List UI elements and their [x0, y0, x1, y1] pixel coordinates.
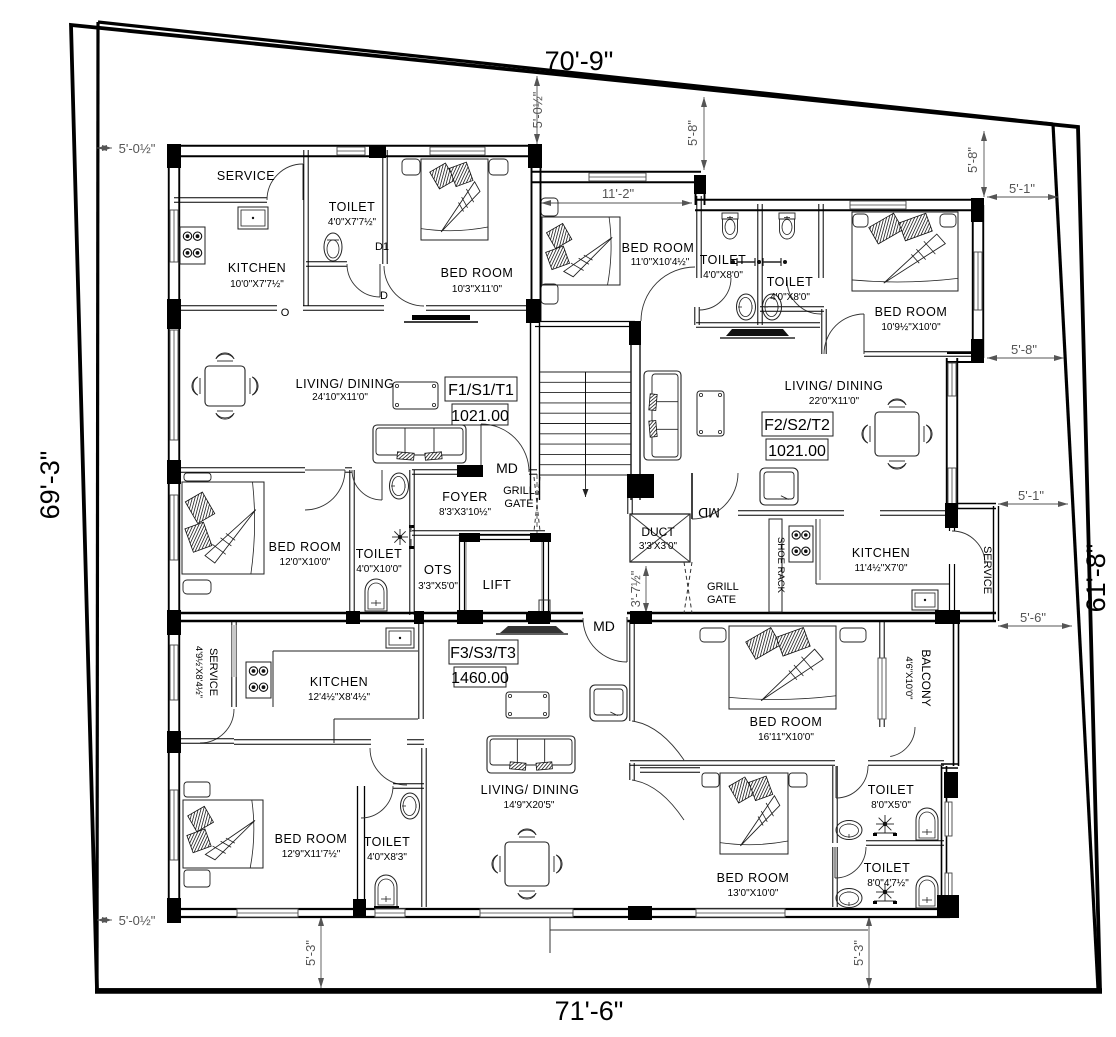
wall: F3 kitchen south [234, 740, 424, 744]
svg-text:11'0"X10'4½": 11'0"X10'4½" [631, 257, 690, 268]
window: left kitchen [170, 210, 179, 263]
door arc: F1 toilet2 [352, 470, 382, 500]
sink F2 [912, 590, 938, 610]
label F3 living [481, 783, 580, 811]
staircase enclosure [531, 321, 641, 500]
dining table F3 [492, 829, 562, 899]
label F2 toilet1 [700, 253, 747, 281]
wall: flat2 north exterior [695, 177, 982, 210]
sink F1 [238, 207, 268, 229]
svg-text:5'-1": 5'-1" [1018, 488, 1044, 503]
svg-text:OTS: OTS [424, 562, 452, 577]
wall: F1 toilet2 east / OTS west [410, 470, 414, 615]
wall: F1 kitchen-toilet vertical [304, 150, 308, 306]
svg-text:KITCHEN: KITCHEN [310, 675, 368, 689]
wall: F2 toilet2 east [819, 204, 823, 278]
label F3 kitchen [308, 675, 371, 703]
dining table F2 [862, 399, 932, 469]
door arc: F1 toilet D1 [347, 264, 380, 297]
wall: F1 toilet east [383, 150, 387, 264]
wall: F1 service-kitchen divider [174, 198, 267, 202]
svg-text:F1/S1/T1: F1/S1/T1 [448, 382, 514, 399]
svg-text:SERVICE: SERVICE [981, 546, 993, 594]
label F1 bedroom1 [441, 266, 514, 295]
window: F2 east bedroom [974, 252, 983, 311]
wall: flat3 balcony east [954, 621, 959, 766]
wall: building bottom exterior [168, 909, 950, 917]
dim 5-8 top right at x984 [965, 131, 987, 197]
svg-text:1460.00: 1460.00 [451, 670, 509, 687]
wc F1 toilet1 [324, 233, 342, 261]
svg-text:71'-6": 71'-6" [555, 996, 624, 1026]
wall: flat2 east step [947, 353, 984, 362]
svg-text:DUCT: DUCT [641, 525, 675, 539]
dim 5-1 right upper [987, 181, 1058, 200]
wc F2 toilet2 [779, 213, 795, 239]
wall: living-bedroom13 stub [630, 763, 634, 780]
svg-text:5'-6": 5'-6" [1020, 610, 1046, 625]
wall: F1 foyer north [412, 470, 537, 474]
svg-text:BED ROOM: BED ROOM [750, 715, 823, 729]
door arc: F2 bedroom [824, 314, 864, 354]
svg-text:BED ROOM: BED ROOM [717, 871, 790, 885]
door arc: F3 toilet bottom [835, 847, 866, 878]
label MD F1 [496, 460, 518, 476]
svg-text:3'3'X3'0": 3'3'X3'0" [639, 541, 678, 552]
duct shaft [630, 514, 690, 562]
svg-text:MD: MD [496, 460, 518, 476]
label MD F3 [593, 618, 615, 634]
window: left living [170, 330, 179, 441]
svg-text:TOILET: TOILET [329, 200, 376, 214]
wall: F2 toilets middle [758, 204, 762, 325]
door arc: F3 toilet top [836, 766, 868, 798]
label F1 service [217, 169, 275, 183]
svg-text:BALCONY: BALCONY [919, 649, 933, 706]
bed F1 bedroom1 [402, 159, 508, 240]
window: F2 east living w1 [948, 363, 957, 397]
door arc: F2 MD [692, 473, 738, 519]
dim 5-3 bottom right [851, 916, 872, 988]
label F2 bedroom [875, 305, 948, 333]
svg-text:16'11"X10'0": 16'11"X10'0" [758, 732, 814, 743]
wall: F2 toilet1 west [697, 196, 701, 278]
label F1 foyer [439, 490, 492, 518]
svg-text:TOILET: TOILET [364, 835, 411, 849]
door arc: balcony [890, 727, 915, 757]
label bedroom 11x10 [622, 241, 695, 268]
wall: F1 kitchen-living divider [174, 306, 539, 310]
svg-text:12'4½"X8'4½": 12'4½"X8'4½" [308, 692, 371, 703]
svg-text:5'-0½": 5'-0½" [119, 141, 156, 156]
label F2 toilet2 [767, 275, 814, 303]
wall: F2 kitchen north [738, 511, 950, 515]
svg-text:FOYER: FOYER [442, 490, 488, 504]
window: balcony east wall [878, 658, 887, 720]
dimension 61-8 right [1081, 544, 1111, 613]
wall: F1 foyer south / OTS north [412, 531, 545, 535]
wall: F2 foyer west + leaf [691, 473, 693, 519]
svg-text:4'0"X8'3": 4'0"X8'3" [367, 852, 407, 863]
sill: F3 entry [496, 626, 568, 634]
site boundary inner line top [98, 22, 1053, 124]
door arc: F2 service [950, 508, 986, 612]
fixtures F3 toilet top [836, 808, 938, 840]
wall: F3 service south [174, 739, 234, 743]
dim 5-6 right bottom [998, 610, 1072, 629]
door arc: F3 toilet3 [361, 786, 393, 818]
wall: flat2 service east [994, 506, 999, 621]
wall: flat2 service north [958, 504, 996, 509]
site boundary inner line left [97, 22, 98, 990]
window: left bedroom F3 [170, 790, 179, 861]
wall: toilets divider [866, 841, 944, 845]
site boundary inner line right [1053, 124, 1098, 989]
wall: flat1 north exterior [168, 146, 541, 157]
svg-text:5'-1": 5'-1" [1009, 181, 1035, 196]
unit box F3 [449, 640, 518, 687]
shower F1 toilet2 [392, 525, 414, 549]
label F3 bedroom16 [750, 715, 823, 743]
window: left service F3 [170, 645, 179, 701]
kitchen counter F2 [816, 519, 950, 584]
svg-text:5'-8": 5'-8" [965, 147, 980, 173]
window: bottom toilet3 [375, 909, 406, 918]
staircase treads [540, 372, 631, 497]
svg-text:3'-7½": 3'-7½" [628, 570, 643, 607]
wall: bedroom13 north lower [640, 768, 700, 772]
window: toilets east w2 [945, 873, 953, 907]
wall: F2 bedroom south [864, 352, 981, 356]
label D [380, 290, 388, 302]
porch outline bottom [550, 911, 868, 953]
window: F1 north w2 [430, 147, 486, 156]
door arc: F1 service [267, 164, 303, 200]
svg-text:10'3"X11'0": 10'3"X11'0" [452, 284, 503, 295]
sink F3 [386, 628, 414, 648]
label O [281, 307, 290, 319]
label F1 kitchen [228, 261, 286, 290]
basin F3 toilet [401, 793, 420, 819]
wall: bedroom13 east / toilets west [833, 766, 837, 907]
svg-text:TOILET: TOILET [356, 547, 403, 561]
dimension 69-3 left [35, 451, 65, 520]
svg-text:10'9½"X10'0": 10'9½"X10'0" [881, 322, 941, 333]
svg-text:F2/S2/T2: F2/S2/T2 [764, 417, 830, 434]
svg-text:SERVICE: SERVICE [217, 169, 275, 183]
dim 11-2 [541, 186, 692, 206]
svg-text:8'0"X5'0": 8'0"X5'0" [871, 800, 911, 811]
column blocks [167, 144, 984, 923]
svg-text:61'-8": 61'-8" [1081, 544, 1111, 613]
dimension 71-6 bottom [555, 996, 624, 1026]
label F3 toilet top [868, 783, 915, 811]
svg-text:14'9"X20'5": 14'9"X20'5" [504, 800, 555, 811]
basin F1 toilet2 [390, 473, 409, 499]
basin F2 toilet1 [737, 294, 756, 320]
window: top middle bedroom [589, 173, 647, 182]
label F3 toilet bottom [864, 861, 911, 889]
unit box F1 [445, 377, 517, 425]
wall: flat2 east living [947, 358, 958, 508]
svg-text:LIVING/ DINING: LIVING/ DINING [785, 379, 884, 393]
svg-text:LIVING/ DINING: LIVING/ DINING [481, 783, 580, 797]
label grill gate F2 [707, 581, 739, 606]
armchair F3 [590, 685, 627, 721]
door arc: F1 bedroom2 [305, 470, 345, 510]
door arc: F2 toilet1 [699, 278, 731, 310]
label F2 kitchen [852, 546, 910, 574]
svg-text:BED ROOM: BED ROOM [269, 540, 342, 554]
svg-text:4'9½'X8'4½": 4'9½'X8'4½" [193, 646, 204, 698]
lift [459, 533, 551, 621]
sofa F3 [487, 736, 575, 773]
window: bottom living F3 [480, 909, 574, 918]
dim 5-8 top at x704 [685, 97, 707, 170]
svg-text:12'9"X11'7½": 12'9"X11'7½" [282, 849, 341, 860]
svg-text:KITCHEN: KITCHEN [228, 261, 286, 275]
svg-text:TOILET: TOILET [868, 783, 915, 797]
unit box F2 [762, 412, 833, 460]
window: toilets east w1 [945, 802, 953, 837]
svg-text:LIFT: LIFT [483, 577, 512, 592]
svg-text:BED ROOM: BED ROOM [275, 832, 348, 846]
svg-text:O: O [281, 307, 290, 319]
wall: F1 living-bedroom divider [174, 468, 352, 472]
svg-text:D: D [380, 290, 388, 302]
svg-text:4'0"X8'0": 4'0"X8'0" [703, 270, 743, 281]
sill: F1 bedroom step [404, 315, 478, 322]
wc F3 toilet [374, 875, 399, 909]
grill gate F2 dashed [684, 562, 692, 613]
svg-text:5'-0½": 5'-0½" [530, 91, 545, 128]
label F1 toilet [328, 200, 377, 228]
wall: F3 kitchen east [419, 621, 423, 719]
bed F1 bedroom2 [182, 473, 264, 594]
svg-text:F3/S3/T3: F3/S3/T3 [450, 645, 516, 662]
svg-text:8'0"4'7½": 8'0"4'7½" [867, 878, 909, 889]
window: bottom bedroom13 [696, 909, 786, 918]
window: F2 east living w2 [948, 468, 957, 505]
svg-text:5'-8": 5'-8" [1011, 342, 1037, 357]
svg-text:BED ROOM: BED ROOM [875, 305, 948, 319]
wall: balcony west [880, 621, 884, 727]
svg-text:5'-0½": 5'-0½" [119, 913, 156, 928]
door arc: F3 bedroom door [370, 748, 407, 785]
svg-text:MD: MD [593, 618, 615, 634]
svg-text:TOILET: TOILET [767, 275, 814, 289]
svg-text:13'0"X10'0": 13'0"X10'0" [728, 888, 779, 899]
dim 3-7half [628, 566, 649, 613]
svg-text:TOILET: TOILET [700, 253, 747, 267]
svg-text:11'4½"X7'0": 11'4½"X7'0" [855, 563, 908, 574]
centre table F3 [506, 692, 549, 718]
shoe rack [769, 519, 786, 612]
door arc: F1 bedroom D [384, 266, 424, 306]
svg-text:70'-9": 70'-9" [545, 46, 614, 76]
sofa F2 [644, 371, 681, 460]
wall: top middle recessed exterior [531, 151, 701, 321]
kitchen counter F3 [273, 651, 418, 743]
svg-text:69'-3": 69'-3" [35, 451, 65, 520]
centre table F1 [393, 382, 438, 409]
dim 5-3 bottom left [303, 916, 324, 988]
wall: F3 toilet east / living west [422, 748, 426, 907]
svg-text:4'0"X7'7½": 4'0"X7'7½" [328, 217, 377, 228]
svg-text:4'0"X8'0": 4'0"X8'0" [770, 292, 810, 303]
svg-text:5'-3": 5'-3" [303, 940, 318, 966]
svg-text:1021.00: 1021.00 [768, 443, 826, 460]
door arc: F3 MD [583, 617, 627, 662]
label OTS [418, 562, 458, 592]
svg-text:KITCHEN: KITCHEN [852, 546, 910, 560]
taps F2 toilets [731, 258, 787, 266]
wall: F1 toilet south [306, 262, 347, 266]
label F1 bedroom2 [269, 540, 342, 568]
label F3 bedroom13 [717, 871, 790, 899]
svg-text:10'0"X7'7½": 10'0"X7'7½" [230, 279, 284, 290]
side table F2 [697, 391, 724, 436]
svg-text:24'10"X11'0": 24'10"X11'0" [312, 392, 368, 403]
dim 5-8 right mid [987, 342, 1064, 361]
bed F3 bedroom13 [702, 773, 807, 854]
window: bottom bedroom F3 [237, 909, 299, 918]
stove F3 [246, 662, 271, 698]
label grill gate F1 [503, 485, 535, 510]
wall: F1 toilet2 west [350, 470, 354, 615]
sill: F2 entry [720, 329, 795, 338]
wall: F2 toilets south [695, 307, 820, 327]
svg-text:LIVING/ DINING: LIVING/ DINING [296, 377, 395, 391]
svg-text:3'3"X5'0": 3'3"X5'0" [418, 581, 458, 592]
wall: middle horizontal main [168, 613, 996, 621]
stove F1 [180, 227, 205, 264]
svg-text:4'0"X10'0": 4'0"X10'0" [356, 564, 402, 575]
svg-text:D1: D1 [375, 241, 389, 253]
label F1 living [296, 377, 395, 403]
svg-text:TOILET: TOILET [864, 861, 911, 875]
wc F1 toilet2 [365, 579, 387, 611]
window: left bedroom F1 [170, 495, 179, 561]
fixtures F3 toilet bottom [836, 876, 938, 908]
svg-text:BED ROOM: BED ROOM [622, 241, 695, 255]
window: F2 north bedroom [850, 201, 907, 210]
label balcony [903, 649, 933, 706]
svg-text:11'-2": 11'-2" [602, 186, 635, 201]
dim 5-0half bottom left [97, 913, 156, 928]
wall: F3 bedroom-toilet divider [358, 786, 365, 907]
svg-text:GATE: GATE [707, 594, 736, 606]
sofa F1 [373, 425, 466, 463]
wall: flat3 toilets east [941, 764, 958, 913]
wall: F3 service east [232, 621, 236, 707]
label F3 service [193, 646, 219, 698]
door arc: F3 bedroom13 [632, 780, 684, 820]
svg-text:1021.00: 1021.00 [451, 408, 509, 425]
wall: bedroom16 south [630, 761, 944, 765]
label F2 service [981, 546, 993, 594]
stove F2 [789, 526, 813, 562]
svg-text:22'0"X11'0": 22'0"X11'0" [809, 396, 860, 407]
door arc: bedroom 11x10 [641, 267, 695, 321]
wall: flat2 east upper [973, 205, 984, 358]
window: F1 north w1 [337, 147, 366, 156]
dining table F1 [192, 353, 258, 419]
wall: duct west [628, 476, 632, 514]
label F1 toilet2 [356, 547, 403, 575]
svg-text:5'-8": 5'-8" [685, 120, 700, 146]
basin F2 toilet2 [763, 294, 782, 320]
dim 5-0half top center vertical [530, 76, 545, 144]
svg-text:4'6"X10'0": 4'6"X10'0" [903, 656, 914, 699]
label D1 [375, 241, 389, 253]
door arc: F3 bedroom16 [632, 721, 684, 760]
armchair F2 [760, 468, 798, 505]
svg-text:GRILL: GRILL [707, 581, 739, 593]
bed F3 bedroom16 [700, 626, 866, 709]
svg-text:GATE: GATE [504, 498, 533, 510]
wall: F3 toilet north [393, 784, 424, 788]
wall: F2 toilet2 south stub [760, 307, 826, 354]
svg-text:8'3'X3'10½": 8'3'X3'10½" [439, 507, 492, 518]
label F3 bedroom1 [275, 832, 348, 860]
svg-text:SERVICE: SERVICE [207, 648, 219, 696]
grill gate F1 dashed [534, 474, 540, 533]
bed F2 bedroom [852, 212, 958, 291]
label F2 living [785, 379, 884, 407]
svg-text:BED ROOM: BED ROOM [441, 266, 514, 280]
svg-text:12'0"X10'0": 12'0"X10'0" [280, 557, 331, 568]
svg-text:MD: MD [698, 505, 720, 521]
bed bedroom 11x10 [541, 198, 620, 304]
wall: F3 living east / bedroom16 west [630, 621, 634, 721]
wc F2 toilet1 [722, 213, 738, 239]
label MD F2 rotated [698, 505, 720, 521]
svg-text:5'-3": 5'-3" [851, 940, 866, 966]
svg-text:SHOE RACK: SHOE RACK [775, 537, 786, 594]
door arc: F2 toilet2 [787, 280, 821, 314]
wall: building left exterior [169, 145, 180, 919]
door arc: F3 service [200, 709, 234, 743]
door arc: F1 MD [481, 424, 529, 472]
dim 5-1 right lower [998, 488, 1068, 507]
dim 5-0half top left [97, 141, 156, 156]
bed F3 bedroom1 [183, 782, 263, 887]
label F3 toilet [364, 835, 411, 863]
dimension 70-9 top [545, 46, 614, 76]
